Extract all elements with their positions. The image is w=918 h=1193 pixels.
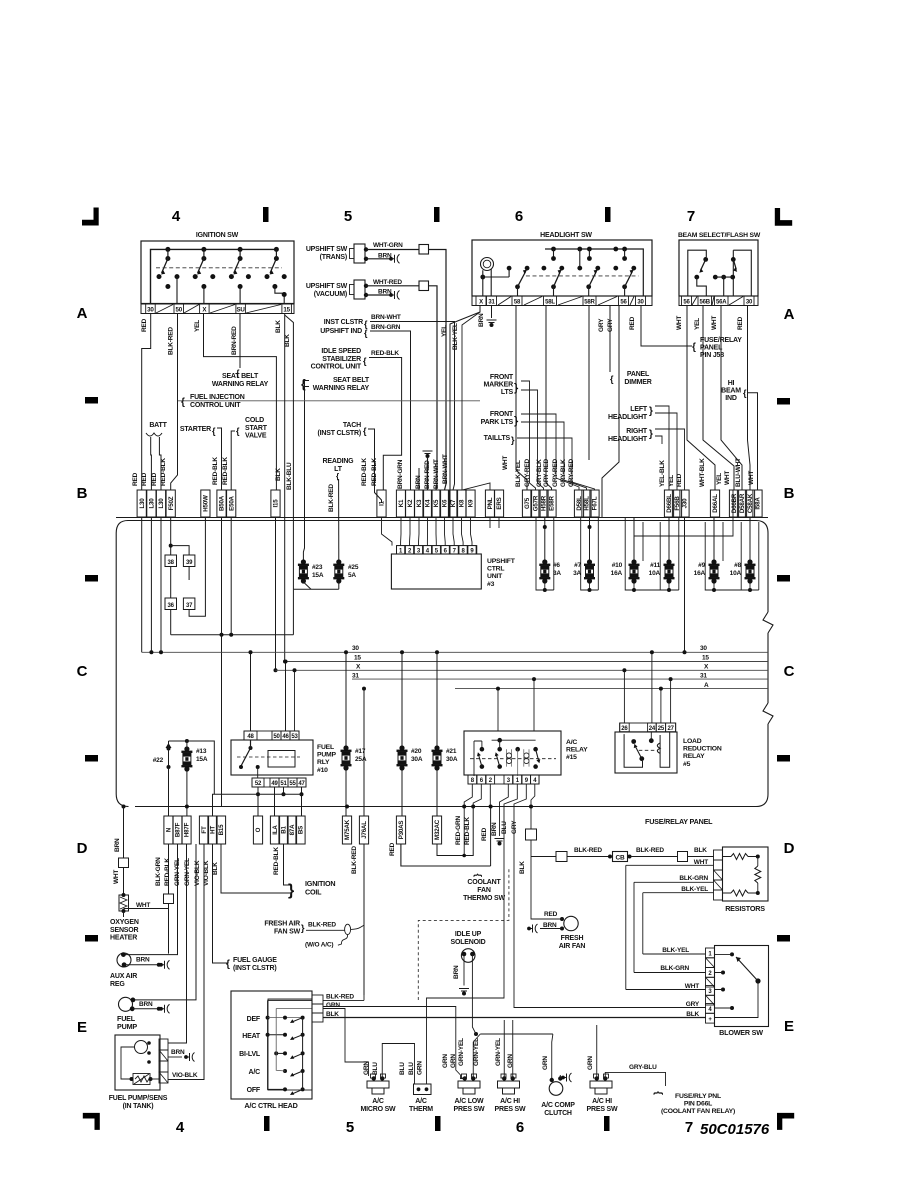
svg-text:YEL: YEL bbox=[194, 320, 201, 332]
connector M75AK at x347 bbox=[342, 816, 351, 844]
svg-text:}: } bbox=[288, 882, 294, 899]
svg-text:30A: 30A bbox=[446, 756, 458, 763]
blower switch terminal column bbox=[706, 948, 715, 958]
connector P30AS at x401 bbox=[396, 816, 405, 844]
svg-text:PUMP: PUMP bbox=[317, 752, 337, 759]
svg-text:FRONT: FRONT bbox=[490, 411, 514, 418]
svg-text:BLK-RED: BLK-RED bbox=[326, 994, 354, 1001]
connector K4 at x427.5 bbox=[423, 490, 432, 517]
feed wire y741 for fuses 22 13 bbox=[169, 741, 215, 794]
connector K9 at x470.5 bbox=[466, 490, 475, 517]
svg-text:A: A bbox=[784, 306, 795, 323]
resistor block connector column bbox=[714, 850, 723, 860]
fuse #22 terminals bbox=[166, 743, 172, 748]
svg-text:STABILIZER: STABILIZER bbox=[322, 356, 361, 363]
connector D58AR at x742 bbox=[737, 490, 746, 517]
svg-text:TACH: TACH bbox=[343, 422, 361, 429]
svg-text:39: 39 bbox=[186, 560, 193, 566]
wire pin 52 down to O connector bbox=[257, 787, 259, 816]
svg-text:{: { bbox=[181, 397, 185, 408]
svg-text:RED-BLK: RED-BLK bbox=[371, 458, 378, 486]
a/c hi pres sw 2 bbox=[595, 1076, 599, 1080]
svg-text:MICRO SW: MICRO SW bbox=[361, 1106, 397, 1113]
svg-text:K6: K6 bbox=[442, 499, 449, 507]
svg-text:30A: 30A bbox=[411, 756, 423, 763]
svg-text:15A: 15A bbox=[196, 756, 208, 763]
wire to taillts bbox=[517, 438, 595, 490]
svg-text:RED: RED bbox=[737, 316, 744, 330]
svg-text:YEL: YEL bbox=[716, 473, 723, 485]
svg-text:BLK-GRN: BLK-GRN bbox=[660, 965, 689, 972]
svg-text:CLUTCH: CLUTCH bbox=[544, 1110, 572, 1117]
wire BLK-GRN from N connector bbox=[168, 844, 170, 894]
wire hi beam ind to I58A bbox=[748, 393, 758, 490]
feed wire GRN to low pres sw bbox=[323, 1007, 465, 1079]
svg-text:BRN: BRN bbox=[114, 838, 121, 852]
svg-text:RED-BLK: RED-BLK bbox=[464, 817, 471, 845]
bus line 31 bbox=[352, 678, 768, 680]
wire #13 to H87F connector bbox=[186, 771, 188, 816]
fuel pump relay bottom pins 52 49 51 55 47 bbox=[252, 778, 306, 787]
svg-text:BATT: BATT bbox=[149, 422, 167, 429]
svg-text:BRN: BRN bbox=[543, 922, 557, 929]
svg-text:UPSHIFT IND: UPSHIFT IND bbox=[320, 328, 362, 335]
svg-text:BLK-YEL: BLK-YEL bbox=[662, 947, 689, 954]
svg-text:BRN-WHT: BRN-WHT bbox=[433, 459, 440, 489]
svg-text:BLK-RED: BLK-RED bbox=[328, 484, 335, 512]
svg-text:MARKER: MARKER bbox=[483, 382, 513, 389]
svg-text:E: E bbox=[77, 1019, 87, 1036]
svg-text:FT: FT bbox=[201, 826, 208, 834]
svg-text:GRY-RED: GRY-RED bbox=[543, 459, 550, 487]
svg-text:WHT: WHT bbox=[724, 471, 731, 485]
svg-text:BLK: BLK bbox=[686, 1011, 699, 1018]
svg-text:BRN-GRN: BRN-GRN bbox=[397, 459, 404, 489]
svg-text:E: E bbox=[784, 1018, 794, 1035]
svg-text:BRN: BRN bbox=[139, 1001, 153, 1008]
svg-text:31: 31 bbox=[488, 300, 495, 306]
svg-text:STARTER: STARTER bbox=[180, 426, 211, 433]
svg-text:7: 7 bbox=[687, 208, 695, 225]
wire RED-BLK from B1 to ignition coil bbox=[284, 844, 291, 885]
svg-text:RED: RED bbox=[141, 472, 148, 486]
headlight wire RED to fuse/relay panel pin J58 bbox=[641, 306, 692, 347]
svg-text:OXYGEN: OXYGEN bbox=[110, 919, 139, 926]
beam select wire YEL bbox=[703, 306, 734, 491]
svg-text:51: 51 bbox=[280, 781, 287, 787]
blower switch box bbox=[715, 946, 769, 1027]
svg-text:B1: B1 bbox=[281, 825, 288, 833]
svg-text:BLK: BLK bbox=[275, 320, 282, 333]
fuse #6 3A bbox=[544, 518, 546, 562]
svg-text:(VACUUM): (VACUUM) bbox=[314, 291, 347, 298]
svg-text:FRESH: FRESH bbox=[561, 935, 584, 942]
svg-text:15: 15 bbox=[283, 307, 290, 314]
svg-text:HEADLIGHT: HEADLIGHT bbox=[608, 436, 648, 443]
svg-text:PANEL: PANEL bbox=[627, 371, 650, 378]
svg-text:YEL: YEL bbox=[668, 475, 675, 487]
connector N at x168.5 bbox=[164, 816, 173, 844]
svg-text:BLK-YEL: BLK-YEL bbox=[452, 323, 459, 350]
svg-text:RED-BLK: RED-BLK bbox=[371, 350, 399, 357]
svg-text:SEAT BELT: SEAT BELT bbox=[222, 373, 259, 380]
svg-text:G75: G75 bbox=[524, 497, 531, 509]
svg-text:PNL: PNL bbox=[487, 497, 494, 509]
svg-text:GRN: GRN bbox=[442, 1054, 449, 1068]
connector K7 at x453 bbox=[448, 490, 457, 517]
svg-text:10A: 10A bbox=[730, 570, 742, 577]
wire GRY-BLU to fuse/rly pnl pin D66L bbox=[605, 1072, 665, 1086]
headlight wire GRY-RED bbox=[588, 306, 590, 461]
svg-text:5: 5 bbox=[346, 1119, 354, 1136]
svg-text:5: 5 bbox=[344, 208, 352, 225]
svg-text:B50A: B50A bbox=[219, 495, 226, 511]
connector O at x258 bbox=[253, 816, 262, 844]
connector H58R at x543.5 bbox=[539, 490, 548, 517]
svg-text:GRY-BLK: GRY-BLK bbox=[560, 459, 567, 487]
svg-text:ILA: ILA bbox=[272, 825, 279, 835]
svg-text:AIR FAN: AIR FAN bbox=[559, 943, 586, 950]
connector K8 at x461.5 bbox=[457, 490, 466, 517]
svg-text:BLK-RED: BLK-RED bbox=[351, 846, 358, 874]
svg-text:I15: I15 bbox=[273, 499, 280, 508]
wire to seat belt warning relay right bbox=[303, 381, 309, 562]
svg-text:(W/O A/C): (W/O A/C) bbox=[305, 942, 333, 949]
svg-text:}: } bbox=[514, 415, 519, 427]
wire BLU down to a/c therm bbox=[427, 807, 505, 1085]
frame corner mark top-right bbox=[775, 208, 792, 226]
svg-text:47: 47 bbox=[298, 781, 305, 787]
svg-text:53: 53 bbox=[291, 734, 298, 740]
svg-text:58R: 58R bbox=[584, 300, 595, 306]
connector C58AK at x750 bbox=[745, 490, 754, 517]
svg-text:FUSE/RLY PNL: FUSE/RLY PNL bbox=[675, 1093, 721, 1100]
svg-text:BRN-WHT: BRN-WHT bbox=[442, 454, 449, 484]
svg-text:HEADLIGHT SW: HEADLIGHT SW bbox=[540, 232, 592, 239]
svg-text:L30: L30 bbox=[149, 498, 156, 509]
connector box on WHT-RED wire bbox=[419, 281, 429, 291]
svg-text:RED: RED bbox=[151, 472, 158, 486]
svg-text:D66AL: D66AL bbox=[712, 494, 719, 513]
svg-text:50C01576: 50C01576 bbox=[700, 1121, 770, 1138]
svg-text:31: 31 bbox=[700, 673, 707, 680]
svg-text:WARNING RELAY: WARNING RELAY bbox=[212, 381, 269, 388]
wire BLU micro sw to therm jumper bbox=[382, 1044, 414, 1085]
fuel pump sens internal wiring bbox=[121, 1047, 135, 1079]
fuse #25 output wire bbox=[338, 582, 340, 589]
svg-text:26: 26 bbox=[621, 726, 628, 732]
svg-text:HEATER: HEATER bbox=[110, 935, 137, 942]
jumper wire low pres to comp clutch bbox=[473, 1034, 553, 1082]
svg-text:48: 48 bbox=[247, 734, 254, 740]
svg-text:37: 37 bbox=[186, 603, 193, 609]
wire #17 to M75AK bbox=[345, 770, 347, 816]
svg-text:BLK-YEL: BLK-YEL bbox=[681, 886, 708, 893]
ignition switch box bbox=[141, 241, 294, 304]
svg-text:SU: SU bbox=[236, 307, 245, 314]
svg-text:FUEL: FUEL bbox=[317, 744, 334, 751]
svg-text:CONTROL UNIT: CONTROL UNIT bbox=[190, 402, 241, 409]
headlight wire WHT terminal 58 bbox=[516, 306, 527, 491]
svg-text:INST CLSTR: INST CLSTR bbox=[324, 319, 363, 326]
wire GRY down to blower sw 4 bbox=[514, 807, 706, 1008]
svg-text:58: 58 bbox=[514, 300, 521, 306]
svg-text:}: } bbox=[511, 435, 515, 445]
connector E58R at x551.5 bbox=[547, 490, 556, 517]
svg-text:I58A: I58A bbox=[755, 497, 762, 510]
svg-text:BLK-GRN: BLK-GRN bbox=[155, 857, 162, 886]
svg-text:FUEL PUMP/SENS: FUEL PUMP/SENS bbox=[109, 1095, 168, 1102]
svg-text:A/C: A/C bbox=[415, 1098, 427, 1105]
headlight wire BLK-YEL bbox=[462, 306, 490, 491]
wire GRN-YEL second to fuel pump bbox=[133, 844, 196, 1000]
svg-text:36: 36 bbox=[168, 603, 175, 609]
svg-text:B15: B15 bbox=[218, 824, 225, 836]
beam select wire RED bbox=[748, 306, 751, 491]
wire BLK-RED from J76AL down bbox=[363, 844, 365, 995]
svg-text:{: { bbox=[212, 426, 216, 436]
svg-text:5A: 5A bbox=[348, 572, 356, 579]
svg-text:O: O bbox=[255, 827, 262, 832]
svg-text:{: { bbox=[226, 959, 230, 970]
fuse 9-8 bottom tie wire bbox=[714, 583, 750, 590]
svg-text:RED-BLK: RED-BLK bbox=[164, 858, 171, 886]
svg-text:#23: #23 bbox=[312, 564, 323, 571]
svg-text:BLU: BLU bbox=[372, 1062, 379, 1075]
svg-text:50: 50 bbox=[273, 734, 280, 740]
svg-text:F50Z: F50Z bbox=[168, 496, 175, 510]
connector E50A at x231.2 bbox=[227, 490, 236, 517]
wire I15 down to bus X bbox=[275, 518, 277, 671]
wire B50A down through panel to B15 bbox=[221, 518, 223, 807]
wire BRN fuel pump bbox=[132, 1008, 159, 1010]
svg-text:LEFT: LEFT bbox=[630, 406, 648, 413]
svg-text:WHT: WHT bbox=[711, 316, 718, 330]
resistor R-bot bbox=[731, 890, 748, 896]
numbered boxes 1-9 upshift ctrl unit pins bbox=[397, 546, 477, 554]
panel bottom exit dots bbox=[122, 805, 126, 809]
fuse output tie wire to BLK-BLU bbox=[293, 589, 338, 635]
svg-text:K9: K9 bbox=[468, 499, 475, 507]
svg-text:BLOWER SW: BLOWER SW bbox=[719, 1028, 763, 1037]
svg-text:56B: 56B bbox=[700, 300, 711, 306]
svg-text:FAN: FAN bbox=[477, 887, 491, 894]
svg-text:#11: #11 bbox=[650, 562, 660, 569]
svg-text:24: 24 bbox=[649, 726, 656, 732]
connector FT at x204 bbox=[199, 816, 208, 844]
aux air reg symbol bbox=[117, 953, 131, 967]
svg-text:B87F: B87F bbox=[175, 822, 182, 837]
svg-text:31: 31 bbox=[352, 673, 359, 680]
svg-text:3A: 3A bbox=[573, 570, 581, 577]
svg-text:WHT: WHT bbox=[748, 471, 755, 485]
svg-text:HEAT: HEAT bbox=[242, 1033, 261, 1040]
fuel pump relay internals bbox=[249, 746, 253, 750]
svg-text:D: D bbox=[784, 840, 795, 857]
a/c micro sw bbox=[372, 1076, 376, 1080]
branch wire to box 39 bbox=[171, 546, 189, 580]
a/c relay output wires to panel bottom bbox=[464, 784, 472, 807]
svg-text:VIO-BLK: VIO-BLK bbox=[194, 860, 201, 886]
svg-text:GRY-RED: GRY-RED bbox=[568, 459, 575, 487]
wire J30 down to bus 30 bbox=[684, 518, 686, 653]
svg-text:HEADLIGHT: HEADLIGHT bbox=[608, 414, 648, 421]
svg-text:#7: #7 bbox=[574, 562, 581, 569]
connector 87A at x292 bbox=[287, 816, 296, 844]
svg-text:SOLENOID: SOLENOID bbox=[451, 939, 486, 946]
svg-text:{: { bbox=[363, 426, 367, 436]
wire upshift vacuum WHT-RED into panel to fuse bbox=[435, 650, 439, 654]
svg-text:A/C: A/C bbox=[249, 1069, 261, 1076]
svg-text:RED: RED bbox=[141, 318, 148, 332]
connector box on WHT-GRN wire bbox=[419, 245, 429, 255]
svg-text:{: { bbox=[692, 342, 696, 353]
svg-text:BLU: BLU bbox=[399, 1062, 406, 1075]
wire #21 to M32AC bbox=[436, 770, 438, 816]
jumper wire from fuse 10 top bbox=[634, 490, 733, 536]
svg-text:FUSE/RELAY PANEL: FUSE/RELAY PANEL bbox=[645, 817, 713, 826]
wire J76AL to bus A bbox=[363, 689, 365, 816]
svg-text:RED: RED bbox=[481, 827, 488, 841]
svg-text:K5: K5 bbox=[433, 499, 440, 507]
ignition switch terminal strip 30 50 X SU 15 bbox=[141, 304, 294, 314]
svg-text:#20: #20 bbox=[411, 748, 422, 755]
fuse #23 output wire bbox=[303, 582, 311, 589]
svg-text:GRN: GRN bbox=[363, 1061, 370, 1075]
svg-text:COOLANT: COOLANT bbox=[467, 879, 501, 886]
svg-text:BEAM SELECT/FLASH SW: BEAM SELECT/FLASH SW bbox=[678, 232, 761, 239]
svg-text:GRY-BLU: GRY-BLU bbox=[629, 1064, 657, 1071]
frame corner mark top-left bbox=[82, 208, 99, 226]
svg-text:RED-BLK: RED-BLK bbox=[160, 458, 167, 486]
ignition wire BLK-RED terminal 50 bbox=[171, 314, 178, 491]
svg-text:A: A bbox=[704, 682, 709, 689]
fuse #17 25A bbox=[345, 652, 347, 747]
a/c ctrl head box bbox=[231, 991, 312, 1099]
panel right edge break symbols bbox=[763, 612, 773, 794]
svg-text:YEL: YEL bbox=[441, 325, 448, 337]
wire RED exit to coolant line bbox=[490, 807, 492, 867]
connector L30 at x161 bbox=[156, 490, 165, 517]
svg-text:ERS: ERS bbox=[496, 497, 503, 509]
svg-text:L30: L30 bbox=[139, 498, 146, 509]
svg-text:RED-BLK: RED-BLK bbox=[222, 457, 229, 485]
svg-text:A/C HI: A/C HI bbox=[500, 1098, 520, 1105]
svg-text:{: { bbox=[363, 356, 367, 366]
svg-text:49: 49 bbox=[271, 781, 278, 787]
fuse #23 15A bbox=[301, 559, 306, 564]
blower switch internals bbox=[730, 952, 734, 956]
svg-text:PRES SW: PRES SW bbox=[454, 1106, 485, 1113]
svg-text:K1: K1 bbox=[398, 499, 405, 507]
svg-text:}: } bbox=[649, 429, 653, 440]
svg-text:GRN: GRN bbox=[417, 1061, 424, 1075]
wire bus30 to pin 48 bbox=[250, 652, 252, 731]
wire E50A down bbox=[230, 518, 232, 635]
svg-text:GRN-YEL: GRN-YEL bbox=[174, 858, 181, 886]
svg-text:WARNING RELAY: WARNING RELAY bbox=[313, 385, 370, 392]
svg-text:VIO-BLK: VIO-BLK bbox=[203, 860, 210, 886]
a/c relay internals bbox=[470, 758, 556, 760]
svg-text:{: { bbox=[610, 374, 614, 384]
svg-text:56A: 56A bbox=[716, 300, 727, 306]
a/c therm bbox=[414, 1084, 432, 1095]
fuel pump/sens in tank box bbox=[115, 1035, 160, 1090]
connector K2 at x410 bbox=[405, 490, 414, 517]
svg-text:30: 30 bbox=[637, 300, 644, 306]
svg-text:HI: HI bbox=[728, 380, 735, 387]
dashed w/o a/c alternate wire bbox=[418, 868, 509, 1000]
fuse #20 30A bbox=[401, 652, 403, 747]
connector M32AC at x437 bbox=[432, 816, 441, 844]
feed wires hi pres sw 1 bbox=[504, 1020, 513, 1079]
svg-text:LOAD: LOAD bbox=[683, 738, 702, 745]
ignition wire RED terminal 30 bbox=[142, 314, 151, 491]
svg-text:BRN-WHT: BRN-WHT bbox=[371, 314, 401, 321]
a/c relay bottom pins 8 6 2 3 1 9 4 bbox=[468, 775, 539, 784]
headlight switch terminal strip X 31 58 58L 58R 56 30 bbox=[472, 296, 652, 306]
connector row baseline bbox=[116, 517, 768, 519]
connector J30 at x684.5 bbox=[680, 490, 689, 517]
svg-text:FUEL GAUGE: FUEL GAUGE bbox=[233, 957, 277, 964]
svg-text:WHT: WHT bbox=[113, 870, 120, 884]
svg-text:30: 30 bbox=[147, 307, 154, 314]
connector D66BL at x669 bbox=[664, 490, 673, 517]
connector B15 at x221 bbox=[216, 816, 225, 844]
svg-text:BLK-RED: BLK-RED bbox=[168, 327, 175, 355]
connector G75 at x527 bbox=[522, 490, 531, 517]
svg-text:38: 38 bbox=[168, 560, 175, 566]
ignition wire BRN-RED terminal SU to seat belt warning relay bbox=[239, 314, 241, 369]
wire BRN oxygen sensor from panel bbox=[123, 807, 125, 859]
svg-text:COLD: COLD bbox=[245, 417, 264, 424]
wire RED from P30AS to coolant fan thermo sw bbox=[401, 844, 491, 866]
svg-text:PUMP: PUMP bbox=[117, 1022, 137, 1031]
svg-text:SENSOR: SENSOR bbox=[110, 927, 139, 934]
svg-text:WHT: WHT bbox=[502, 456, 509, 470]
svg-text:YEL-BLK: YEL-BLK bbox=[659, 460, 666, 487]
bus line A bbox=[455, 688, 768, 690]
square connector S2 bbox=[556, 852, 567, 862]
connector ERS at x499 bbox=[494, 490, 503, 517]
svg-text:DEF: DEF bbox=[247, 1016, 261, 1023]
wire RED-BLK from B87F to aux air reg bbox=[123, 844, 177, 955]
edge bar marks left bbox=[85, 397, 98, 404]
svg-text:BRN: BRN bbox=[136, 957, 150, 964]
connector ILA at x275 bbox=[270, 816, 279, 844]
svg-text:N: N bbox=[166, 827, 173, 832]
svg-text:50: 50 bbox=[175, 307, 182, 314]
connector D66BR at x734 bbox=[729, 490, 738, 517]
headlight wire GRY-BLK bbox=[546, 306, 552, 491]
connector L30 at x151.4 bbox=[147, 490, 156, 517]
svg-text:I1: I1 bbox=[379, 500, 386, 506]
connector F67L at x594.5 bbox=[590, 490, 599, 517]
a/c relay feeds from bus bbox=[497, 689, 499, 731]
svg-text:FRONT: FRONT bbox=[490, 374, 514, 381]
svg-text:J76AL: J76AL bbox=[361, 821, 368, 839]
svg-text:K7: K7 bbox=[450, 499, 457, 507]
svg-text:PRES SW: PRES SW bbox=[587, 1106, 618, 1113]
a/c ctrl head rails bbox=[302, 1018, 304, 1090]
svg-text:RELAY: RELAY bbox=[683, 753, 705, 760]
svg-text:RED-BLK: RED-BLK bbox=[212, 457, 219, 485]
wires to right headlight bbox=[655, 429, 685, 490]
wire GRN-YEL from H87F to fuel pump sens bbox=[168, 844, 187, 1043]
fuse #10 16A bbox=[633, 518, 635, 562]
svg-text:BLK: BLK bbox=[284, 334, 291, 347]
square connector S3 bbox=[678, 852, 688, 862]
